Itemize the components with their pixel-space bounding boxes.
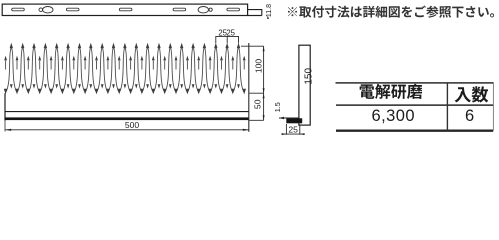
top view: base strip outline [2,4,247,15]
table header: 電解研磨 [360,84,423,99]
table header: 入数 [455,86,489,102]
front view: spike wires (curved strands) [6,47,245,92]
svg-text:6,300: 6,300 [372,107,416,125]
front view: tall spike arrow tips [10,43,241,48]
svg-text:25: 25 [226,28,235,37]
top view: keyhole hole 1 [39,7,53,13]
svg-text:500: 500 [125,120,140,130]
dimension 11.8 (strip width) [267,16,269,19]
top view: end tab [248,10,262,16]
dimension 1.5 leader arrow [279,117,299,119]
top view: mounting slot 3 [119,8,132,11]
front view: base left edge [4,93,6,120]
svg-text:25: 25 [288,125,298,135]
svg-text:6: 6 [465,107,474,125]
dimension 50 (base height) [252,99,262,109]
front view: base fold line [5,111,249,113]
svg-text:100: 100 [254,59,264,74]
svg-text:11.8: 11.8 [266,4,273,17]
dimension 25,25 (spike pitch) [216,36,239,43]
side view: foot (thick) [286,118,302,123]
dimension 100 (spike height) extension + line [241,46,264,120]
note: mounting-dimension reference text [288,6,494,18]
top view: mounting slot 1 [12,8,25,11]
top view: mounting slot 2 [66,8,79,11]
front view: short spike stubs [6,61,245,70]
svg-text:50: 50 [252,99,262,109]
top view: keyhole hole 2 [198,7,212,13]
front view: right edge / extension line [248,43,250,132]
svg-text:150: 150 [304,68,315,85]
side view: plate outline [299,45,310,125]
svg-text:1.5: 1.5 [273,102,282,112]
front view: spike base arrows (down) [4,89,246,95]
front view: short spike arrow tips [4,56,245,61]
top view: mounting slot 5 [227,8,240,11]
side view: 150 label [304,68,315,85]
front view: base plate (thick) [5,117,249,120]
front view: shallow down arrows at tall columns [10,84,240,88]
table: price table grid [336,82,494,84]
dimension 25 (foot width) [282,124,304,135]
dimension 500 (length) [4,121,6,132]
top view: mounting slot 4 [173,8,186,11]
